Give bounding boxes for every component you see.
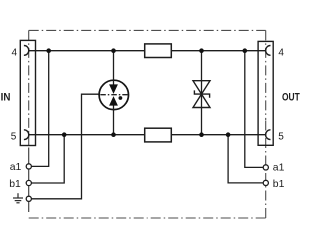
- svg-text:a1: a1: [273, 163, 285, 174]
- junction bottom b1-left: [62, 132, 67, 137]
- wire ground to gas discharge tube electrode: [32, 94, 100, 199]
- junction top GDT: [111, 48, 116, 53]
- plug contact 5 IN: [24, 130, 29, 140]
- terminal a1 right: [263, 165, 268, 170]
- terminal b1 right: [263, 180, 268, 185]
- terminal ground left: [26, 196, 31, 201]
- svg-text:IN: IN: [1, 92, 11, 104]
- terminal b1 left: [26, 180, 31, 185]
- wire GDT top lead: [113, 51, 115, 81]
- terminal a1 left: [26, 164, 31, 169]
- wire GDT bottom lead: [113, 110, 115, 135]
- svg-text:OUT: OUT: [282, 91, 300, 103]
- junction top a1-left: [46, 48, 51, 53]
- ground symbol: [13, 193, 23, 203]
- svg-text:4: 4: [12, 47, 18, 58]
- wire a1 left to top wire: [32, 51, 49, 167]
- enclosure boundary (dash-dot): [29, 30, 266, 218]
- svg-text:4: 4: [278, 48, 284, 59]
- svg-text:5: 5: [11, 132, 17, 143]
- svg-text:b1: b1: [9, 179, 21, 190]
- junction top diode: [199, 48, 204, 53]
- wire b1 left to bottom wire: [32, 135, 65, 183]
- junction bottom b1-right: [226, 132, 231, 137]
- svg-text:b1: b1: [273, 179, 285, 190]
- junction bottom GDT: [111, 132, 116, 137]
- junction top a1-right: [243, 48, 248, 53]
- resistor R2: [145, 128, 172, 142]
- wire b1 right from bottom wire: [228, 135, 263, 183]
- plug contact 5 OUT: [266, 130, 271, 140]
- terminal block OUT: [258, 41, 273, 145]
- suppressor diode V1: [193, 51, 210, 135]
- wire bottom (terminal 5 row): [29, 134, 266, 136]
- boundary segment through left terminals: [28, 148, 30, 213]
- wire top (terminal 4 row): [29, 50, 266, 52]
- svg-text:a1: a1: [10, 162, 22, 173]
- plug contact 4 OUT: [266, 46, 271, 56]
- terminal block IN: [20, 40, 35, 145]
- wire a1 right from top wire: [245, 51, 263, 168]
- resistor R1: [145, 44, 172, 58]
- svg-text:5: 5: [278, 131, 284, 142]
- plug contact 4 IN: [24, 46, 29, 56]
- junction bottom diode: [199, 132, 204, 137]
- gas discharge tube F1: [99, 80, 128, 109]
